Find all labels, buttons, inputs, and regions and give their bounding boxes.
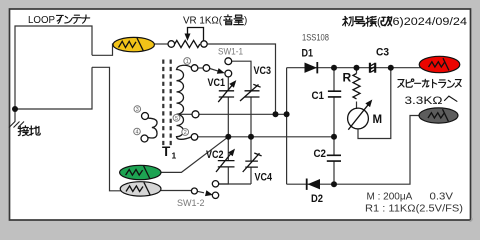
svg-text:C3: C3: [376, 47, 389, 59]
svg-text:VC1: VC1: [208, 77, 226, 89]
svg-text:VC3: VC3: [254, 65, 272, 77]
svg-text:SW1-2: SW1-2: [177, 198, 205, 208]
svg-text:D2: D2: [311, 193, 323, 205]
svg-text:VR 1KΩ(: VR 1KΩ(: [183, 16, 223, 27]
svg-text:): ): [244, 16, 247, 27]
svg-text:VC2: VC2: [206, 149, 224, 161]
svg-text:C1: C1: [312, 90, 325, 102]
svg-text:R1 : 11KΩ(2.5V/FS): R1 : 11KΩ(2.5V/FS): [365, 204, 463, 215]
svg-text:6)2024/09/24: 6)2024/09/24: [393, 16, 468, 28]
svg-text:4: 4: [136, 130, 139, 136]
svg-text:LOOP: LOOP: [28, 15, 55, 26]
svg-text:3: 3: [136, 107, 139, 113]
svg-text:5: 5: [175, 116, 178, 122]
svg-text:M: M: [373, 114, 383, 126]
svg-text:T: T: [162, 144, 171, 159]
svg-text:C2: C2: [314, 148, 327, 160]
svg-text:M : 200μA: M : 200μA: [367, 192, 413, 203]
svg-text:SW1-1: SW1-1: [218, 47, 243, 57]
svg-text:3.3KΩ: 3.3KΩ: [405, 95, 443, 107]
svg-text:2: 2: [184, 130, 187, 136]
svg-text:VC4: VC4: [255, 172, 273, 184]
svg-text:R: R: [343, 71, 352, 85]
svg-text:1: 1: [172, 151, 177, 161]
svg-text:D1: D1: [302, 48, 314, 60]
svg-text:1SS108: 1SS108: [302, 33, 329, 43]
svg-text:0.3V: 0.3V: [430, 192, 454, 203]
svg-text:1: 1: [186, 59, 189, 65]
